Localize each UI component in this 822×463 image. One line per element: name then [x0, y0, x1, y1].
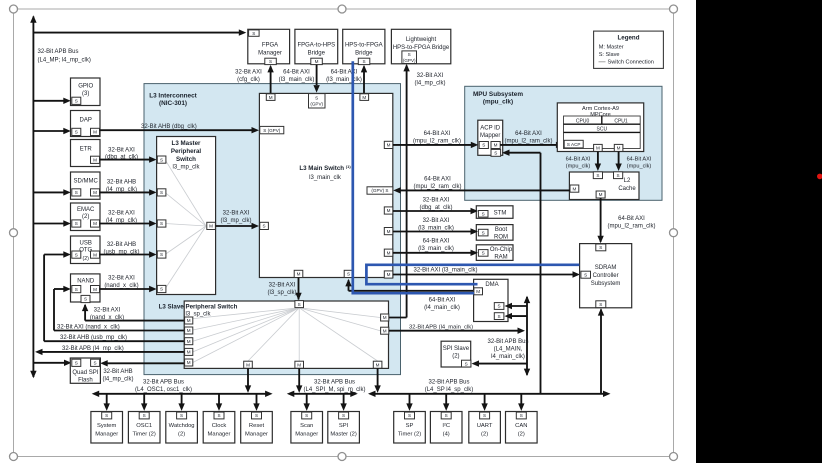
svg-text:32-Bit APB Bus: 32-Bit APB Bus — [38, 49, 79, 55]
svg-text:S: S — [482, 212, 485, 217]
peripheral SP Timer (2) — [409, 394, 411, 404]
wire nand vertical bus to NAND S — [54, 288, 65, 290]
slave switch left M2 port — [185, 327, 193, 334]
svg-text:FPGA-to-HPS: FPGA-to-HPS — [297, 43, 335, 49]
svg-text:S: S — [75, 221, 78, 226]
svg-text:(l3_main_clk): (l3_main_clk) — [279, 77, 315, 83]
DAP — [71, 111, 101, 137]
svg-text:SCU: SCU — [597, 127, 608, 133]
wire APB to SD/MMC S — [33, 191, 64, 193]
svg-text:(4): (4) — [443, 432, 450, 438]
wire master switch M to main switch S, 32-Bit AXI (l3_mp_clk) — [216, 225, 254, 227]
peripheral I²C (4) — [445, 394, 447, 404]
svg-text:Subsystem: Subsystem — [591, 281, 621, 287]
svg-text:(l3_main_clk): (l3_main_clk) — [418, 226, 454, 232]
wire APB to EMAC S — [33, 223, 64, 225]
slave switch bottom M ports — [244, 361, 253, 368]
svg-text:M: M — [93, 190, 97, 195]
wire NAND M to master switch S5, 32-Bit AXI nand_x_clk — [100, 288, 152, 290]
svg-text:32-Bit AXI: 32-Bit AXI — [223, 211, 250, 217]
wire USB OTG M to master switch S4, 32-Bit AHB usb_mp_clk — [100, 254, 152, 256]
svg-text:Timer (2): Timer (2) — [133, 432, 156, 438]
svg-text:S: S — [94, 361, 97, 366]
svg-text:M: M — [187, 360, 191, 365]
svg-text:Mapper: Mapper — [480, 133, 500, 139]
svg-text:M: M — [93, 130, 97, 135]
svg-text:OSC1: OSC1 — [136, 423, 152, 429]
svg-text:S: S — [252, 31, 255, 36]
svg-text:S: S — [75, 99, 78, 104]
master switch S3 port — [157, 220, 166, 227]
SCU row — [564, 131, 641, 133]
svg-text:32-Bit AHB: 32-Bit AHB — [103, 369, 132, 375]
wire EMAC M to master switch S3, 32-Bit AXI l4_mp_clk — [100, 223, 152, 225]
wire L2 bottom M down to SDRAM S, 64-Bit AXI (mpu_l2_ram_clk) — [600, 198, 602, 242]
master switch S4 port — [157, 251, 166, 258]
svg-text:(l3_sp_clk): (l3_sp_clk) — [267, 290, 296, 296]
wire main switch M to On-Chip RAM S, 64-Bit AXI (l3_main_clk) — [393, 252, 472, 254]
svg-text:S: S — [255, 413, 258, 418]
wire slave switch M4 to main APB vertical, 32-Bit APB (l4_mp_clk) — [40, 351, 184, 353]
svg-text:Quad SPI: Quad SPI — [72, 370, 98, 376]
svg-text:(l3_mp_clk): (l3_mp_clk) — [220, 218, 251, 224]
svg-text:32-Bit APB Bus: 32-Bit APB Bus — [428, 380, 469, 386]
L3 Master Peripheral Switch — [157, 137, 216, 295]
wire slave switch M1 up into NAND bottom S, 32-Bit AXI nand_x_clk — [81, 295, 90, 302]
svg-text:S: S — [408, 52, 411, 57]
svg-text:l4_main_clk): l4_main_clk) — [491, 354, 525, 360]
svg-text:Bridge: Bridge — [355, 51, 373, 57]
svg-text:ACP ID: ACP ID — [480, 126, 501, 132]
svg-text:(dbg_at_clk): (dbg_at_clk) — [419, 205, 452, 211]
wire main switch bottom M down to slave switch top S, 32-Bit AXI (l3_sp_clk) — [298, 278, 300, 300]
svg-text:ROM: ROM — [494, 234, 508, 240]
svg-text:S: S — [298, 302, 301, 307]
slave switch left M3 port — [185, 338, 193, 345]
svg-text:S: S — [160, 190, 163, 195]
svg-text:M: M — [383, 315, 387, 320]
svg-text:32-Bit AXI: 32-Bit AXI — [423, 198, 450, 204]
svg-text:S (GPV): S (GPV) — [263, 128, 281, 133]
svg-text:Flash: Flash — [78, 378, 93, 384]
svg-text:M: M — [246, 362, 250, 367]
wire top APB bus to FPGA Manager — [33, 32, 240, 34]
svg-text:S ACP: S ACP — [567, 142, 581, 147]
SPI Slave (2) — [441, 341, 471, 367]
svg-text:(2): (2) — [452, 354, 459, 360]
svg-text:L3 Interconnect: L3 Interconnect — [149, 93, 197, 100]
svg-text:M: M — [93, 221, 97, 226]
svg-text:S: S — [160, 252, 163, 257]
svg-text:On-Chip: On-Chip — [490, 247, 513, 253]
svg-text:S: S — [599, 302, 602, 307]
svg-text:Legend: Legend — [617, 35, 639, 42]
FPGA Manager — [248, 29, 290, 64]
svg-text:(nand_x_clk): (nand_x_clk) — [104, 283, 138, 289]
svg-text:GPIO: GPIO — [78, 84, 93, 90]
selection handles — [10, 5, 18, 13]
svg-text:M: M — [599, 192, 603, 197]
svg-text:SP: SP — [406, 423, 414, 429]
svg-text:S: S — [584, 272, 587, 277]
Boot ROM — [476, 225, 513, 241]
slave switch top S port — [295, 301, 304, 308]
svg-text:M: M — [596, 146, 600, 151]
svg-text:HPS-to-FPGA Bridge: HPS-to-FPGA Bridge — [393, 45, 450, 51]
svg-text:M: M — [187, 350, 191, 355]
wire slave switch bottom M1 drop to OSC1 bus — [247, 368, 249, 385]
svg-text:64-Bit AXI: 64-Bit AXI — [429, 298, 456, 304]
peripheral Clock Manager — [218, 394, 220, 404]
svg-text:(l3_main_clk): (l3_main_clk) — [418, 246, 454, 252]
main switch right (GPV) S port (from L2 cache) — [367, 187, 393, 194]
svg-text:M: M — [387, 272, 391, 277]
SD/MMC — [71, 172, 101, 199]
svg-text:Boot: Boot — [495, 227, 508, 233]
svg-text:64-Bit AXI: 64-Bit AXI — [283, 70, 310, 76]
main switch right M port (to STM) — [384, 207, 393, 214]
svg-text:Watchdog: Watchdog — [169, 423, 195, 429]
Arm Cortex-A9 MPCore — [557, 103, 643, 152]
wire L3 main switch M up to FPGA Manager S, 32-Bit AXI (cfg_clk) — [270, 67, 272, 94]
svg-text:64-Bit AXI: 64-Bit AXI — [618, 216, 645, 222]
svg-text:32-Bit AHB: 32-Bit AHB — [107, 180, 136, 186]
svg-text:Switch: Switch — [176, 156, 196, 163]
svg-text:S: S — [520, 413, 523, 418]
svg-text:S: S — [105, 413, 108, 418]
STM — [476, 206, 513, 219]
svg-text:M: M — [209, 224, 213, 229]
svg-text:(mpu_l2_ram_clk): (mpu_l2_ram_clk) — [413, 184, 461, 190]
svg-text:S: S — [315, 95, 318, 100]
svg-text:(cfg_clk): (cfg_clk) — [237, 77, 260, 83]
svg-text:Lightweight: Lightweight — [406, 37, 437, 43]
svg-text:32-Bit APB (l4_main_clk): 32-Bit APB (l4_main_clk) — [409, 324, 473, 330]
master switch S2 port — [157, 189, 166, 196]
svg-text:(mpu_clk): (mpu_clk) — [627, 164, 652, 170]
svg-text:(mpu_l2_ram_clk): (mpu_l2_ram_clk) — [413, 139, 461, 145]
svg-text:(L4_MAIN,: (L4_MAIN, — [494, 347, 523, 353]
svg-text:S: S — [465, 361, 468, 366]
svg-text:S: S — [482, 251, 485, 256]
svg-text:M: M — [315, 59, 319, 64]
svg-text:Cache: Cache — [618, 186, 636, 192]
slave switch left M5 port — [185, 359, 193, 366]
svg-text:32-Bit AXI: 32-Bit AXI — [108, 276, 135, 282]
Lightweight HPS-to-FPGA Bridge — [391, 29, 450, 64]
svg-text:Timer (2): Timer (2) — [398, 432, 421, 438]
svg-text:Manager: Manager — [95, 432, 118, 438]
svg-text:(l4_mp_clk): (l4_mp_clk) — [102, 377, 133, 383]
svg-text:32-Bit AHB: 32-Bit AHB — [107, 242, 136, 248]
svg-text:S: S — [75, 361, 78, 366]
main switch right M port (to SDRAM) — [384, 271, 393, 278]
svg-text:EMAC: EMAC — [77, 207, 95, 213]
svg-text:M: Master: M: Master — [599, 44, 624, 50]
DMA right S ports — [494, 303, 504, 310]
svg-text:Manager: Manager — [258, 51, 282, 57]
svg-text:S: S — [342, 413, 345, 418]
svg-text:S: S — [445, 413, 448, 418]
svg-text:Manager: Manager — [245, 432, 268, 438]
svg-text:64-Bit AXI: 64-Bit AXI — [424, 131, 451, 137]
svg-text:(mpu_clk): (mpu_clk) — [483, 98, 513, 105]
svg-text:S: S — [599, 245, 602, 250]
svg-text:S: S — [482, 143, 485, 148]
wire slave switch M2 to NAND left S via vertical, 32-Bit AXI (nand_x_clk) — [54, 330, 184, 332]
svg-text:S: S — [75, 130, 78, 135]
wire APB to GPIO S — [33, 100, 64, 102]
peripheral UART (2) — [484, 394, 486, 404]
wire main 32-bit APB vertical bus (l4_mp) — [32, 17, 34, 378]
DMA left M port — [474, 288, 483, 295]
wire APB spine up to ACP lower S — [508, 152, 541, 154]
main switch right M port (to On-Chip RAM) — [384, 249, 393, 256]
svg-text:32-Bit AXI: 32-Bit AXI — [417, 73, 444, 79]
svg-text:CPU0: CPU0 — [576, 118, 590, 124]
svg-text:NAND: NAND — [77, 279, 95, 285]
svg-text:M: M — [297, 362, 301, 367]
svg-text:Master (2): Master (2) — [330, 432, 356, 438]
svg-text:(GPV) S: (GPV) S — [371, 188, 388, 193]
svg-text:M: M — [269, 95, 273, 100]
svg-text:S: S — [483, 413, 486, 418]
slave switch right M port (to l4_main APB) — [381, 327, 389, 334]
svg-text:32-Bit AXI (nand_x_clk): 32-Bit AXI (nand_x_clk) — [57, 325, 120, 331]
svg-text:Bridge: Bridge — [308, 51, 326, 57]
svg-text:(l4_main_clk): (l4_main_clk) — [424, 305, 460, 311]
wire slave switch M5 to Quad SPI S2, 32-Bit AHB (l4_mp_clk) — [106, 362, 185, 364]
svg-text:Manager: Manager — [208, 432, 231, 438]
ETR — [71, 140, 101, 167]
svg-text:S: S — [494, 151, 497, 156]
wire main switch M to Boot ROM S, 32-Bit AXI (l3_main_clk) — [393, 231, 472, 233]
svg-text:(L4_SP l4_sp_clk): (L4_SP l4_sp_clk) — [425, 387, 474, 393]
svg-text:64-Bit AXI: 64-Bit AXI — [566, 157, 591, 163]
peripheral SPI Master (2) — [343, 394, 345, 404]
svg-text:L3 Main Switch (1): L3 Main Switch (1) — [299, 164, 351, 172]
fan connections inside master switch — [165, 160, 206, 226]
main switch bottom S port (from DMA) — [344, 270, 353, 277]
svg-text:(3): (3) — [82, 91, 89, 97]
svg-text:64-Bit AXI: 64-Bit AXI — [515, 131, 542, 137]
MPU Subsystem region — [465, 86, 662, 200]
SDRAM Controller Subsystem — [580, 244, 632, 308]
svg-text:SDRAM: SDRAM — [595, 265, 617, 271]
svg-text:USB: USB — [80, 241, 92, 247]
svg-text:(2): (2) — [518, 432, 525, 438]
peripheral Scan Manager — [306, 394, 308, 404]
bottom APB bus segment L4_OSC1 — [97, 393, 267, 395]
svg-text:(2): (2) — [82, 214, 89, 220]
svg-text:(L4_SPI_M, spi_m_clk): (L4_SPI_M, spi_m_clk) — [303, 387, 365, 393]
svg-text:(L4_MP; l4_mp_clk): (L4_MP; l4_mp_clk) — [38, 58, 91, 64]
SDRAM bottom S port — [596, 301, 606, 308]
wire slave switch right M to APB spine, 32-Bit APB (l4_main_clk) — [389, 330, 520, 332]
svg-text:(l4_mp_clk): (l4_mp_clk) — [106, 187, 137, 193]
USB OTG (2) — [71, 236, 101, 264]
svg-text:M: M — [617, 146, 621, 151]
svg-text:(dbg_at_clk): (dbg_at_clk) — [105, 155, 138, 161]
svg-text:S: Slave: S: Slave — [599, 52, 620, 58]
svg-text:32-Bit AXI: 32-Bit AXI — [94, 308, 121, 314]
L2 cache bottom M port — [596, 191, 605, 198]
wire SD/MMC M to master switch S2, 32-Bit AHB l4_mp_clk — [100, 191, 152, 193]
svg-text:64-Bit AXI: 64-Bit AXI — [424, 177, 451, 183]
peripheral Watchdog (2) — [181, 394, 183, 404]
svg-text:DAP: DAP — [80, 118, 92, 124]
svg-text:(2): (2) — [481, 432, 488, 438]
L3 Main Switch — [259, 93, 392, 277]
svg-text:32-Bit AHB (usb_mp_clk): 32-Bit AHB (usb_mp_clk) — [60, 335, 127, 341]
svg-text:S: S — [408, 413, 411, 418]
L3 Interconnect region (NIC-301) — [144, 84, 401, 375]
svg-text:64-Bit AXI: 64-Bit AXI — [423, 238, 450, 244]
bottom APB bus segment L4_SPI_M — [292, 393, 352, 395]
wire APB to DAP S — [33, 130, 64, 132]
svg-text:Clock: Clock — [212, 423, 227, 429]
L2 Cache — [569, 172, 639, 200]
svg-text:32-Bit AXI: 32-Bit AXI — [108, 147, 135, 153]
L2 cache left M port — [570, 185, 579, 192]
DMA — [474, 279, 508, 321]
svg-text:32-Bit AXI (l3_main_clk): 32-Bit AXI (l3_main_clk) — [414, 268, 478, 274]
svg-text:S: S — [160, 221, 163, 226]
svg-text:M: M — [187, 318, 191, 323]
slave switch right M port (to lightweight bridge) — [381, 314, 389, 321]
svg-text:(l3_main_clk): (l3_main_clk) — [326, 77, 362, 83]
svg-text:M: M — [93, 158, 97, 163]
black side panel — [696, 0, 822, 463]
svg-text:L2: L2 — [624, 178, 631, 184]
main switch right M port (to ACP) — [384, 141, 393, 148]
svg-text:M: M — [387, 143, 391, 148]
main switch bottom M port (to slave switch) — [294, 270, 303, 277]
svg-text:ETR: ETR — [80, 147, 93, 153]
svg-text:L3 Slave Peripheral Switch: L3 Slave Peripheral Switch — [159, 304, 238, 311]
master switch S5 port — [157, 285, 166, 292]
CPU0 / CPU1 cells — [601, 116, 603, 124]
wire FPGA-to-HPS M down to main switch S (GPV), 64-Bit AXI (l3_main_clk) — [316, 65, 318, 85]
svg-text:System: System — [97, 423, 116, 429]
svg-text:S: S — [160, 157, 163, 162]
svg-text:L3 Master: L3 Master — [172, 140, 201, 147]
svg-text:(L4_OSC1, osc1_clk): (L4_OSC1, osc1_clk) — [135, 387, 192, 393]
svg-text:M: M — [376, 362, 380, 367]
l4_main APB spine — [526, 297, 528, 375]
wire DMA M to main switch bottom S — [348, 280, 350, 291]
svg-text:(l4_mp_clk): (l4_mp_clk) — [106, 218, 137, 224]
SDRAM left S port — [581, 271, 591, 278]
wire main switch M to STM S, 32-Bit AXI (dbg_at_clk) — [393, 210, 472, 212]
svg-text:Manager: Manager — [295, 432, 318, 438]
svg-text:(GPV): (GPV) — [310, 102, 323, 107]
svg-text:Controller: Controller — [593, 273, 619, 279]
svg-text:CAN: CAN — [515, 423, 527, 429]
bottom APB bus segment L4_SP — [373, 393, 605, 395]
svg-text:S: S — [347, 272, 350, 277]
svg-text:S: S — [75, 287, 78, 292]
slave switch left M4 port — [185, 348, 193, 355]
wire main switch M to SDRAM left S, 32-Bit AXI (l3_main_clk) — [393, 274, 574, 276]
svg-text:Reset: Reset — [249, 423, 265, 429]
svg-text:32-Bit APB Bus: 32-Bit APB Bus — [143, 380, 184, 386]
svg-text:(usb_mp_clk): (usb_mp_clk) — [103, 250, 139, 256]
svg-text:UART: UART — [477, 423, 493, 429]
peripheral CAN (2) — [520, 394, 522, 404]
fan connections inside slave switch — [193, 308, 299, 319]
wire main switch top M up to HPS-to-FPGA S, 64-Bit AXI (l3_main_clk) — [363, 67, 365, 94]
svg-text:S: S — [498, 314, 501, 319]
main switch left S port (from master switch) — [260, 222, 269, 229]
svg-text:(mpu_l2_ram_clk): (mpu_l2_ram_clk) — [607, 224, 655, 230]
svg-text:(NIC-301): (NIC-301) — [159, 100, 187, 107]
svg-text:64-Bit AXI: 64-Bit AXI — [627, 157, 652, 163]
svg-text:HPS-to-FPGA: HPS-to-FPGA — [345, 43, 383, 49]
Quad SPI Flash — [70, 358, 100, 383]
wire CPU M ports down to L2 cache S ports, 64-Bit AXI (mpu_clk) — [597, 152, 599, 169]
svg-text:M: M — [93, 252, 97, 257]
wire ETR M to master switch S1, 32-Bit AXI dbg_at_clk — [100, 159, 152, 161]
wire DAP M to L3 main switch S (GPV), 32-Bit AHB dbg_clk — [100, 129, 254, 131]
svg-text:32-Bit AXI: 32-Bit AXI — [108, 211, 135, 217]
NAND — [71, 274, 101, 302]
svg-text:Scan: Scan — [300, 423, 313, 429]
svg-text:I²C: I²C — [442, 423, 450, 429]
svg-text:SPI: SPI — [339, 423, 349, 429]
svg-text:S: S — [482, 230, 485, 235]
svg-text:(mpu_clk): (mpu_clk) — [566, 164, 591, 170]
svg-text:S: S — [269, 59, 272, 64]
svg-text:S: S — [617, 173, 620, 178]
svg-text:SPI Slave: SPI Slave — [443, 346, 470, 352]
svg-text:DMA: DMA — [485, 282, 498, 288]
GPIO (3) peripheral — [71, 78, 101, 106]
Legend box — [594, 31, 664, 68]
svg-text:(2): (2) — [178, 432, 185, 438]
wire APB spine to DMA S ports — [510, 305, 528, 307]
SDRAM top S port — [596, 244, 606, 251]
svg-text:32-Bit AXI: 32-Bit AXI — [269, 283, 296, 289]
MPCore M ports — [594, 144, 603, 151]
red notification dot — [817, 174, 822, 180]
main switch top S (GPV) port (from FPGA-to-HPS) — [309, 94, 326, 108]
svg-text:M: M — [387, 250, 391, 255]
svg-text:Arm Cortex-A9: Arm Cortex-A9 — [582, 106, 619, 112]
svg-text:M: M — [572, 186, 576, 191]
svg-text:S: S — [596, 173, 599, 178]
master switch S1 port — [157, 156, 166, 163]
svg-text:M: M — [387, 229, 391, 234]
main switch top M port (to HPS-to-FPGA) — [360, 94, 369, 101]
blue highlight route: HPS-to-FPGA bridge down to DMA M — [353, 61, 474, 293]
svg-text:S: S — [160, 287, 163, 292]
svg-text:S: S — [305, 413, 308, 418]
svg-text:S: S — [75, 190, 78, 195]
selection rectangle — [14, 9, 674, 457]
svg-text:M: M — [494, 143, 498, 148]
peripheral Reset Manager — [256, 394, 258, 404]
svg-text:SD/MMC: SD/MMC — [74, 179, 99, 185]
blue highlight route: DMA to SDRAM via l3 main — [366, 265, 579, 284]
svg-text:32-Bit APB Bus: 32-Bit APB Bus — [314, 380, 355, 386]
svg-text:S: S — [363, 59, 366, 64]
peripheral System Manager — [106, 394, 108, 404]
svg-text:S: S — [75, 252, 78, 257]
main switch right M port (to Boot ROM) — [384, 228, 393, 235]
wire bottom APB bus up to SDRAM bottom S — [600, 310, 602, 394]
peripheral OSC1 Timer (2) — [143, 394, 145, 404]
